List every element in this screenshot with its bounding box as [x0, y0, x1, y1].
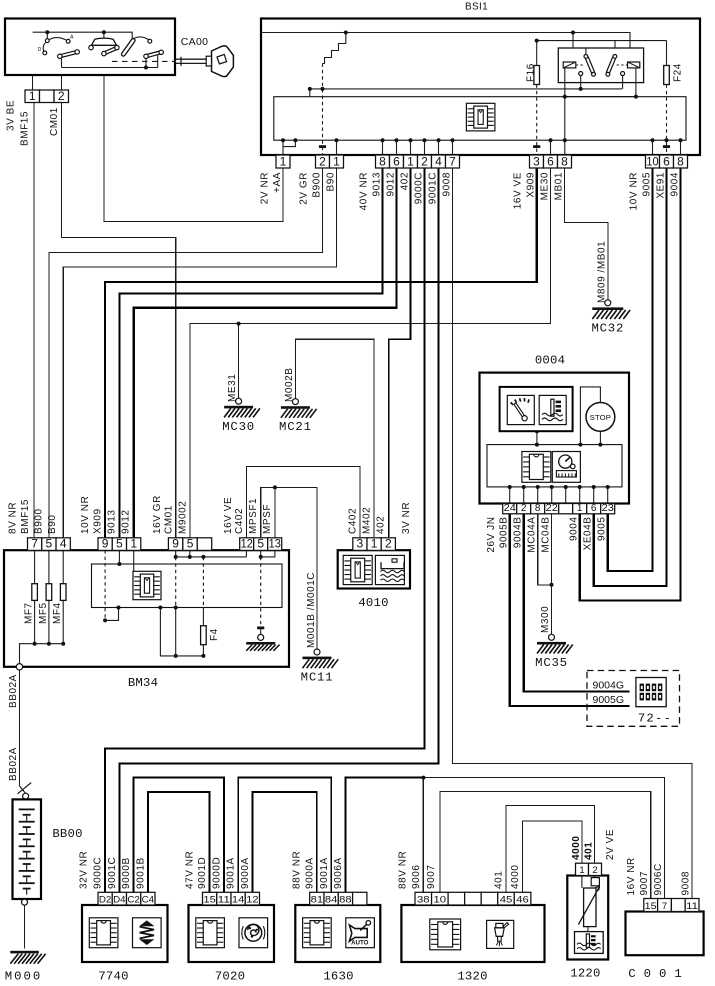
wire 402 BSI1 pin2 to 4010 pin2 — [389, 168, 411, 538]
svg-text:M9002: M9002 — [178, 501, 189, 534]
fuse MF7 — [32, 584, 38, 601]
svg-text:11: 11 — [218, 894, 230, 905]
svg-text:D: D — [38, 47, 42, 53]
connector 7020 pins 15 11 14 12 — [203, 892, 260, 905]
wire 9012 BSI1 pin6 to BM34 pin1 — [134, 168, 397, 538]
svg-text:9013: 9013 — [371, 172, 382, 196]
CA00 switch contact S1 rotary — [46, 34, 48, 39]
svg-text:9013: 9013 — [107, 510, 118, 534]
svg-text:C001: C001 — [628, 967, 690, 981]
svg-text:10V NR: 10V NR — [80, 496, 91, 534]
immobiliser coil icon in 7020 — [239, 918, 268, 948]
BM34 tie MPSF1 MPSF — [260, 550, 262, 557]
connector BM34 pins 12 5 13 — [240, 537, 282, 551]
svg-text:M402: M402 — [362, 507, 373, 534]
coolant temp icon in 1220 — [575, 932, 604, 954]
wire BB00 to ground M000 — [24, 905, 26, 948]
ground MC11 — [301, 649, 339, 685]
svg-text:40V NR: 40V NR — [358, 172, 369, 210]
svg-text:MC04B: MC04B — [541, 517, 552, 553]
BSI1 relay output rail — [310, 88, 622, 90]
splice tick XE91 — [663, 145, 670, 148]
wire 9000A 7020 pin12 to 1630 pin81 — [253, 792, 317, 892]
wire CM01 run to BM34 pin9 — [62, 103, 176, 538]
key symbol CA00 — [176, 58, 212, 60]
fuse F16 — [534, 66, 540, 85]
module 1630 gearbox ECU box — [295, 905, 380, 962]
coolant level icon in 4010 — [375, 555, 404, 584]
svg-text:B90: B90 — [325, 172, 336, 191]
terminal BB02A — [16, 664, 22, 670]
BM34 CM01 internal — [175, 550, 177, 557]
4010 box — [338, 550, 410, 588]
svg-text:2: 2 — [385, 537, 392, 551]
svg-text:1: 1 — [280, 154, 287, 168]
svg-text:72--: 72-- — [638, 712, 672, 726]
svg-text:16V GR: 16V GR — [152, 495, 163, 534]
svg-text:11: 11 — [686, 901, 698, 912]
svg-text:+AA: +AA — [272, 172, 283, 193]
connector 1220 pins 1 2 — [576, 863, 602, 876]
0004 module box — [487, 445, 622, 487]
svg-text:38: 38 — [417, 894, 430, 905]
svg-text:MC11: MC11 — [301, 671, 334, 685]
BM34 internal bus to F4 — [160, 608, 203, 656]
svg-text:B900: B900 — [311, 172, 322, 198]
wire BB02A BM34 to battery BB00 — [20, 670, 26, 794]
svg-text:10: 10 — [646, 154, 658, 168]
svg-text:10: 10 — [434, 894, 447, 905]
wire 9000C BSI1 pin2 to 7740 pin D2 — [105, 168, 424, 892]
svg-text:MB01: MB01 — [553, 172, 564, 200]
terminal battery bottom — [22, 899, 28, 905]
svg-text:9001A: 9001A — [226, 857, 237, 889]
module 7740 box — [82, 905, 168, 962]
svg-text:BB02A: BB02A — [8, 747, 19, 781]
svg-text:1: 1 — [407, 154, 414, 168]
relay K1 contact — [579, 72, 583, 76]
svg-text:10V NR: 10V NR — [628, 172, 639, 210]
svg-text:9005: 9005 — [641, 172, 652, 196]
BM34 F4 branch dashed — [202, 557, 204, 608]
BSI1 box — [261, 19, 700, 156]
wire BMF15 CA00 pin1 to BM34 pin7 — [32, 32, 34, 90]
svg-text:402: 402 — [399, 172, 410, 190]
connector BSI1 pins 2 1 — [316, 154, 344, 168]
relay K1 K2 box in BSI1 — [558, 48, 643, 83]
svg-text:9: 9 — [172, 537, 179, 551]
svg-text:M002B: M002B — [284, 368, 295, 402]
svg-text:3: 3 — [357, 537, 364, 551]
svg-text:4: 4 — [60, 537, 67, 551]
svg-text:CM01: CM01 — [164, 505, 175, 534]
svg-text:12: 12 — [241, 537, 253, 551]
connector 1630 pins 81 84 88 — [310, 892, 367, 905]
BSI1 pin taps 40V group — [382, 140, 384, 155]
wire 9001C BSI1 pin4 to 7740 pin D4 — [119, 168, 438, 892]
svg-text:9012: 9012 — [385, 172, 396, 196]
wire 4000 1320 pin46 to 1220 pin1 — [523, 821, 582, 892]
battery BB00 box — [13, 799, 42, 899]
72-- dashed box — [587, 671, 680, 727]
BM34 inner module box — [92, 564, 283, 608]
wire MC04B M300 0004 pin22 to ground MC35 — [551, 514, 553, 634]
wire 9000B 7740 C2 to 7020 pin11 — [134, 778, 224, 893]
connector 4010 pins 3 1 2 — [353, 537, 396, 551]
svg-text:9001C: 9001C — [427, 172, 438, 204]
STOP lamp in 0004 — [586, 403, 615, 432]
AUTO gearbox icon in 1630 — [346, 918, 375, 948]
BM34 battery bus — [20, 644, 64, 666]
junction MC04A/MC04B — [550, 583, 554, 587]
svg-text:1: 1 — [577, 503, 583, 514]
svg-text:16V NR: 16V NR — [626, 857, 637, 895]
svg-text:MF4: MF4 — [52, 602, 63, 624]
svg-text:2V NR: 2V NR — [259, 172, 270, 204]
connector BM34 pins 7 5 4 — [28, 537, 71, 551]
svg-text:3: 3 — [533, 154, 540, 168]
splice tick X909 — [533, 145, 540, 148]
svg-text:6: 6 — [591, 503, 597, 514]
ic U1 in BSI1 — [466, 103, 495, 131]
svg-text:MF7: MF7 — [24, 602, 35, 624]
suspension icon in 7740 — [133, 918, 162, 948]
connector BM34 pins 9 5 blank — [168, 537, 211, 551]
wire 9001B 7740 C4 to 7020 pin15 — [148, 792, 210, 892]
svg-text:13: 13 — [269, 537, 281, 551]
svg-text:9008: 9008 — [681, 871, 692, 895]
svg-text:9000C: 9000C — [93, 857, 104, 889]
ic U6 in 7020 — [196, 918, 225, 948]
fuel gauge icon in 0004 — [507, 395, 534, 424]
svg-text:9006: 9006 — [411, 865, 422, 889]
svg-text:45: 45 — [500, 894, 513, 905]
svg-text:26V JN: 26V JN — [486, 517, 497, 553]
BM34 9012 tap — [133, 550, 135, 571]
svg-text:9004: 9004 — [669, 172, 680, 196]
wire 9005B 0004 pin24 to 72-- 9005G — [510, 514, 630, 706]
svg-text:46: 46 — [516, 894, 529, 905]
wire 401 1320 pin45 to 1220 pin2 — [506, 806, 594, 893]
svg-text:BMF15: BMF15 — [20, 111, 31, 146]
svg-text:2V GR: 2V GR — [298, 172, 309, 205]
BSI1 pin tap ME30 — [550, 140, 552, 155]
terminal battery top — [23, 793, 29, 799]
wire BMF15 vertical run — [33, 103, 35, 538]
svg-text:23: 23 — [602, 503, 615, 514]
svg-text:MC35: MC35 — [535, 656, 568, 670]
svg-text:X909: X909 — [526, 172, 537, 198]
BSI1 dashed XE91 fuse output — [666, 85, 668, 156]
wire 9013 BSI1 pin8 to BM34 pin5 — [119, 168, 382, 538]
svg-text:7: 7 — [449, 154, 456, 168]
connector icon 72-- — [636, 678, 666, 707]
CA00 internal wire to start contact — [61, 58, 63, 67]
ic U2 in BM34 — [133, 571, 161, 599]
wire 9006 branch to 1320 pin38 — [422, 778, 424, 893]
svg-text:2: 2 — [521, 503, 527, 514]
svg-text:XE91: XE91 — [655, 172, 666, 199]
svg-text:CA00: CA00 — [181, 36, 208, 48]
svg-text:4000: 4000 — [510, 865, 521, 889]
svg-text:1220: 1220 — [570, 967, 600, 981]
relay coil return rail — [564, 68, 566, 155]
relay K2 contact — [621, 72, 625, 76]
BSI1 pin tap 9004 — [680, 140, 682, 155]
svg-text:12: 12 — [246, 894, 258, 905]
svg-text:15: 15 — [203, 894, 215, 905]
svg-text:8V NR: 8V NR — [8, 502, 19, 534]
wire X909 BSI1 pin3 to BM34 pin9 — [105, 168, 537, 538]
svg-text:8: 8 — [535, 503, 541, 514]
relay K1 blade — [585, 48, 587, 55]
svg-text:14: 14 — [232, 894, 244, 905]
svg-text:9001C: 9001C — [107, 857, 118, 889]
svg-text:MF5: MF5 — [38, 602, 49, 624]
svg-text:BB02A: BB02A — [8, 674, 19, 708]
0004 warning lights box — [500, 387, 573, 431]
svg-text:9012: 9012 — [121, 510, 132, 534]
CA00 switch contact S2 accessory — [103, 32, 105, 39]
svg-text:6: 6 — [663, 154, 670, 168]
module 7020 box — [189, 905, 275, 962]
svg-text:1: 1 — [333, 154, 340, 168]
fuse MF5 — [46, 584, 52, 601]
svg-text:9001B: 9001B — [135, 857, 146, 889]
svg-text:MC21: MC21 — [279, 420, 312, 434]
svg-text:C2: C2 — [127, 894, 139, 905]
wire MPSF branch BM34 pin13 — [274, 487, 276, 537]
odometer icon in 0004 — [552, 452, 580, 483]
wire ME30 BSI1 pin6 to BM34 pin5 M9002 — [190, 168, 551, 538]
BSI1 pin tap MB01 — [563, 138, 567, 142]
wire +AA CA00 to BSI1 pin1 — [104, 56, 283, 222]
svg-text:9005B: 9005B — [499, 517, 510, 549]
ignition switch CA00 box — [5, 19, 175, 76]
BSI1 staircase link to pin2 — [323, 33, 346, 64]
BSI1 pin tap B90 — [336, 140, 338, 155]
svg-text:ME31: ME31 — [227, 374, 238, 402]
svg-text:CM01: CM01 — [49, 107, 60, 136]
junction MPSF/MPSF1 — [273, 485, 277, 489]
svg-text:MPSF: MPSF — [262, 504, 273, 534]
svg-text:401: 401 — [494, 871, 505, 889]
svg-text:ME30: ME30 — [539, 172, 550, 200]
svg-text:3V NR: 3V NR — [401, 502, 412, 534]
svg-text:BB00: BB00 — [52, 827, 82, 841]
svg-text:9006C: 9006C — [653, 863, 664, 895]
svg-text:B900: B900 — [34, 508, 45, 534]
svg-text:8: 8 — [561, 154, 568, 168]
svg-text:5: 5 — [46, 537, 53, 551]
connector BSI1 pins 8 6 1 2 4 7 — [376, 154, 460, 168]
svg-text:1: 1 — [130, 537, 137, 551]
svg-text:9006A: 9006A — [333, 857, 344, 889]
svg-text:5: 5 — [187, 537, 194, 551]
connector 1320 pins 38 10 45 46 — [415, 892, 531, 905]
splice mark BB02A — [18, 783, 32, 794]
svg-text:9007: 9007 — [426, 865, 437, 889]
BSI1 dashed X909 fuse output — [536, 85, 538, 156]
ic U3 in 4010 — [343, 555, 372, 584]
svg-text:MC04A: MC04A — [527, 517, 538, 553]
svg-text:6: 6 — [393, 154, 400, 168]
svg-text:4010: 4010 — [358, 596, 388, 610]
svg-text:88V NR: 88V NR — [292, 851, 303, 889]
svg-text:M809 /MB01: M809 /MB01 — [597, 241, 608, 303]
ground internal BM34 — [258, 634, 264, 640]
svg-text:22: 22 — [546, 503, 559, 514]
wire 9008 BSI1 pin7 to C001 pin11 — [453, 168, 693, 899]
svg-text:9008: 9008 — [441, 172, 452, 196]
BM34 fuse feed wires — [34, 550, 36, 644]
svg-text:B90: B90 — [47, 515, 58, 534]
svg-text:6: 6 — [547, 154, 554, 168]
BSI1 pin tap 9005 — [652, 140, 654, 155]
svg-text:8: 8 — [379, 154, 386, 168]
svg-text:MC30: MC30 — [222, 420, 255, 434]
svg-text:402: 402 — [376, 516, 387, 534]
connector 0004 pins 24 2 8 22 blank 1 6 23 — [503, 503, 615, 514]
svg-text:M001B /M001C: M001B /M001C — [306, 572, 317, 648]
BSI1 inner module box — [274, 97, 686, 141]
svg-text:D4: D4 — [113, 894, 125, 905]
CA00 switch contact S3 start — [123, 40, 133, 54]
svg-text:STOP: STOP — [590, 413, 611, 422]
BM34 9013 tap — [118, 550, 120, 564]
svg-text:24: 24 — [504, 503, 517, 514]
svg-text:9004G: 9004G — [593, 680, 625, 692]
svg-text:F24: F24 — [673, 63, 684, 82]
svg-text:1: 1 — [579, 865, 584, 876]
svg-text:F16: F16 — [526, 63, 537, 82]
svg-text:5: 5 — [257, 537, 264, 551]
svg-text:3V BE: 3V BE — [6, 100, 17, 131]
connector BSI1 pin 1 +AA — [276, 154, 290, 168]
relay K1 coil — [563, 62, 576, 68]
svg-text:BSI1: BSI1 — [465, 2, 488, 13]
svg-text:2: 2 — [319, 154, 326, 168]
BM34 dashed X909 internal — [104, 550, 106, 620]
wire MB01 BSI1 pin8 to ground MC32 M809 — [565, 168, 608, 300]
svg-text:XE04B: XE04B — [583, 517, 594, 551]
svg-text:M000: M000 — [5, 970, 43, 984]
fuse F4 — [201, 626, 207, 645]
CA00 internal supply wire — [33, 32, 133, 39]
battery BB00 cells — [19, 809, 35, 811]
svg-text:9004B: 9004B — [513, 517, 524, 549]
BSI1 fuse supply rail W2 — [537, 40, 667, 42]
svg-text:1630: 1630 — [323, 970, 353, 984]
ic U4 in 0004 — [522, 452, 551, 483]
connector BSI1 pins 3 6 8 — [530, 154, 572, 168]
svg-text:9000D: 9000D — [212, 857, 223, 889]
BM34 tie M9002 to pin12 — [176, 556, 247, 558]
svg-text:9005: 9005 — [597, 517, 608, 541]
svg-text:88V NR: 88V NR — [397, 851, 408, 889]
svg-text:C402: C402 — [234, 508, 245, 534]
svg-text:F4: F4 — [209, 628, 220, 641]
svg-text:C4: C4 — [142, 894, 154, 905]
0004 box — [480, 373, 630, 504]
svg-text:2V VE: 2V VE — [605, 829, 616, 860]
wire 9004 BSI1 pin8 to 0004 pin1 — [580, 168, 681, 600]
svg-text:X909: X909 — [93, 508, 104, 534]
svg-text:1320: 1320 — [457, 970, 487, 984]
0004 internal wire lights to module — [536, 431, 538, 444]
svg-text:AUTO: AUTO — [351, 940, 369, 947]
svg-text:C402: C402 — [348, 508, 359, 534]
fuse MF4 — [60, 584, 66, 601]
svg-text:9001D: 9001D — [197, 857, 208, 889]
svg-text:4: 4 — [435, 154, 442, 168]
svg-text:BM34: BM34 — [128, 676, 158, 690]
thermistor icon in 1220 — [581, 876, 583, 889]
ground MC32 — [591, 300, 630, 336]
svg-text:MPSF1: MPSF1 — [248, 498, 259, 534]
ground MC21 — [279, 399, 317, 435]
relay K2 blade — [608, 58, 614, 73]
wire M402 4010 pin1 to ground MC21 M002B — [295, 339, 374, 538]
svg-text:9000B: 9000B — [121, 857, 132, 889]
svg-text:84: 84 — [325, 894, 338, 905]
0004 internal wire STOP — [580, 387, 600, 445]
wire XE91 XE04B BSI1 pin6 to 0004 pin6 — [594, 168, 667, 586]
svg-text:81: 81 — [311, 894, 324, 905]
wire MPSF MPSF1 to ground MC11 M001B/M001C — [261, 487, 317, 649]
wire ME31 branch to ground MC30 — [238, 324, 240, 399]
svg-text:9000C: 9000C — [413, 172, 424, 204]
wire 9001A 7020 pin14 to 1630 pin84 — [238, 778, 331, 893]
wire 9007 1320 pin10 to C001 pin15 — [440, 792, 651, 899]
svg-text:M300: M300 — [540, 606, 551, 633]
svg-text:88: 88 — [339, 894, 352, 905]
svg-text:16V VE: 16V VE — [512, 172, 523, 209]
connector C001 box — [626, 912, 704, 956]
BM34 box — [4, 550, 289, 667]
svg-text:2: 2 — [592, 865, 597, 876]
ic U8 in 1320 — [430, 919, 461, 950]
connector BM34 pins 9 5 1 — [98, 537, 141, 551]
junction 9006 at 1320 pin38 — [421, 776, 425, 780]
svg-text:9005G: 9005G — [593, 694, 625, 706]
wire B900 BSI1 pin2 to BM34 pin5 — [49, 168, 323, 538]
svg-text:D2: D2 — [99, 894, 111, 905]
wire MC04A 0004 pin8 — [538, 514, 552, 585]
svg-text:2: 2 — [58, 89, 65, 103]
ic U7 in 1630 — [303, 918, 332, 948]
ground MC35 — [535, 634, 573, 670]
wire 9005 BSI1 pin10 to 0004 pin23 — [608, 168, 653, 571]
ground MC30 — [222, 398, 260, 434]
svg-text:32V NR: 32V NR — [79, 851, 90, 889]
svg-text:9000A: 9000A — [240, 857, 251, 889]
injector icon in 1320 — [487, 920, 514, 948]
svg-text:BMF15: BMF15 — [20, 499, 31, 534]
svg-text:15: 15 — [645, 901, 657, 912]
CA00 mechanical link dashes — [112, 60, 176, 62]
engine ECU 1320 box — [401, 905, 544, 962]
fuse F24 — [664, 66, 670, 85]
svg-text:9: 9 — [102, 537, 109, 551]
svg-text:5: 5 — [116, 537, 123, 551]
coolant temp icon in 0004 — [539, 395, 566, 424]
svg-text:4000: 4000 — [571, 836, 582, 860]
svg-text:7: 7 — [662, 901, 667, 912]
junction ME31 tap — [237, 322, 241, 326]
junction CA00 supply — [45, 30, 49, 34]
ic U5 in 7740 — [89, 918, 118, 948]
